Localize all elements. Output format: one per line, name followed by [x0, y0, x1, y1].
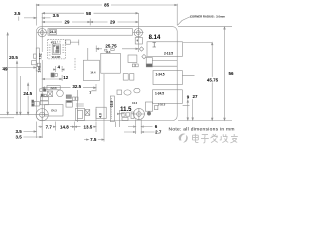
diamond fiducial 1	[139, 47, 143, 51]
mounting hole BR	[133, 109, 144, 120]
svg-text:29: 29	[64, 20, 70, 25]
dim 29 29 line	[42, 19, 138, 26]
right dims 9 / 27	[183, 75, 195, 120]
dark tall rect	[146, 58, 152, 65]
GPIO header	[48, 29, 133, 36]
svg-text:CORNER RADIUS : 3.0mm: CORNER RADIUS : 3.0mm	[190, 15, 225, 19]
SMD pair below DSI	[51, 73, 54, 77]
component near BR corner	[145, 102, 152, 111]
tiny box near edge lower	[37, 63, 40, 66]
svg-text:7: 7	[89, 91, 91, 95]
bottom-right 6 / 2.7 dims	[124, 120, 155, 135]
SMD bits above SoC	[105, 49, 107, 51]
svg-text:11.5: 11.5	[120, 107, 132, 113]
svg-text:14.4: 14.4	[90, 71, 96, 75]
bottom right cluster	[121, 113, 125, 116]
capacitor cylinder	[66, 101, 72, 108]
crystal oval 1	[124, 90, 131, 95]
small SMD cluster left-bottom	[40, 97, 48, 101]
svg-text:32.5: 32.5	[72, 84, 81, 89]
svg-text:1.63: 1.63	[37, 66, 41, 72]
tiny box on left edge	[33, 54, 36, 58]
svg-text:58: 58	[86, 11, 92, 16]
left dim aux line	[20, 76, 22, 115]
dim 32.5 line	[42, 84, 96, 90]
dashed centerline	[74, 58, 76, 70]
small X part	[85, 110, 90, 116]
dim 56 line	[224, 27, 226, 121]
left dim 49 line	[7, 33, 9, 115]
svg-text:1-34.5: 1-34.5	[155, 92, 164, 96]
round can	[57, 90, 64, 97]
svg-text:85: 85	[104, 3, 110, 8]
ext board top to right	[178, 26, 232, 28]
cluster below SoC right	[123, 74, 128, 81]
svg-text:45.75: 45.75	[207, 78, 219, 83]
bottom-left 3.5 dims	[24, 131, 43, 138]
leader from DSI to right	[70, 40, 79, 46]
mounting hole TR	[134, 28, 142, 36]
svg-text:2x0.8: 2x0.8	[51, 87, 58, 90]
AV jack body	[45, 105, 64, 117]
svg-text:29: 29	[110, 20, 116, 25]
bottom dim row1 ticks	[42, 122, 96, 133]
svg-text:1-34.5: 1-34.5	[155, 72, 164, 76]
board outline	[36, 27, 177, 121]
USB stack bottom-right	[153, 90, 183, 104]
svg-text:7.5: 7.5	[90, 137, 97, 142]
svg-text:3.5: 3.5	[14, 11, 21, 16]
dark rect	[66, 95, 71, 99]
svg-text:24.3: 24.3	[50, 30, 56, 34]
svg-text:8.14: 8.14	[149, 35, 161, 41]
svg-text:7.62: 7.62	[39, 53, 43, 59]
bottom dim row1 line	[39, 126, 97, 127]
small part	[117, 90, 122, 95]
svg-text:3.5: 3.5	[53, 13, 60, 18]
ext line right top	[176, 4, 178, 26]
svg-text:56: 56	[228, 71, 234, 76]
watermark logo icon	[179, 133, 188, 142]
diamond fiducial 2	[142, 54, 146, 58]
DSI connector block	[48, 40, 66, 59]
left dim 20.5 line	[2, 61, 36, 115]
USB stack top-right	[147, 42, 183, 57]
svg-text:49: 49	[2, 66, 8, 71]
svg-text:4.0: 4.0	[99, 113, 103, 118]
wide labeled rect	[47, 86, 60, 90]
mounting hole TL	[38, 28, 46, 36]
ext line left top	[35, 4, 37, 26]
svg-text:20.5: 20.5	[9, 55, 18, 60]
SoC chip	[101, 53, 121, 73]
svg-text:3.5: 3.5	[15, 129, 22, 134]
ext board bottom to right	[178, 120, 232, 122]
tiny pair right of can	[73, 97, 75, 100]
ext line mid bottom	[77, 90, 133, 127]
svg-text:12: 12	[63, 75, 69, 80]
ext line bottom-hole-center to left	[0, 114, 36, 116]
ext line y117.8	[0, 117, 14, 119]
RAM chip	[83, 60, 99, 80]
svg-text:25.75: 25.75	[105, 43, 117, 48]
small square mid-right	[128, 55, 137, 63]
dim 45.75 line	[183, 42, 213, 120]
left dim 24.5 line	[27, 83, 29, 115]
CSI strip	[110, 96, 114, 122]
svg-text:24.5: 24.5	[23, 91, 32, 96]
dim 12 line	[42, 75, 62, 81]
SD card strip	[36, 48, 39, 71]
svg-text:13.5: 13.5	[84, 124, 93, 129]
tiny pair	[132, 64, 135, 67]
svg-text:C2.6: C2.6	[132, 102, 138, 105]
connector stub on left edge	[32, 61, 37, 65]
svg-text:2.7: 2.7	[155, 130, 162, 135]
dim 4 line	[53, 66, 65, 72]
svg-text:27: 27	[192, 94, 198, 99]
svg-text:1-10.5: 1-10.5	[158, 103, 166, 107]
HDMI	[96, 107, 106, 118]
mounting hole BL	[36, 109, 48, 121]
square near TR hole	[135, 38, 142, 45]
svg-text:2-13.5: 2-13.5	[164, 51, 173, 55]
micro-usb power	[76, 108, 85, 120]
ext hole-center verticals top	[42, 13, 138, 29]
svg-text:4-2.1: 4-2.1	[51, 41, 57, 44]
dim 85 line	[36, 4, 177, 6]
dim 25.75 line	[96, 37, 138, 53]
X square	[48, 91, 53, 97]
SMD dots	[40, 89, 43, 92]
dim 3.5 top-left leader	[19, 17, 51, 21]
dim 58 line	[42, 12, 138, 14]
svg-text:15.8: 15.8	[110, 101, 114, 107]
corner radius leader	[178, 17, 192, 25]
crystal oval 2	[134, 88, 140, 93]
svg-text:3.5: 3.5	[15, 135, 22, 140]
svg-text:Note: all dimensions in mm: Note: all dimensions in mm	[169, 126, 235, 132]
small box top-right of DSI	[66, 40, 71, 44]
watermark CJK text drawn as strokes	[193, 134, 238, 143]
ext line above RAM	[87, 48, 89, 60]
svg-text:14.8: 14.8	[60, 124, 69, 129]
ethernet jack	[153, 71, 182, 85]
bottom dim 7.5 row2	[84, 74, 104, 142]
hole center verticals left col	[41, 29, 43, 110]
svg-text:E4.3: E4.3	[51, 109, 57, 113]
svg-text:7.7: 7.7	[46, 124, 53, 129]
svg-text:V1.0 B5: V1.0 B5	[52, 56, 61, 59]
I-beam tick under 8.14	[153, 43, 156, 48]
ext lines to right edge	[152, 61, 177, 67]
